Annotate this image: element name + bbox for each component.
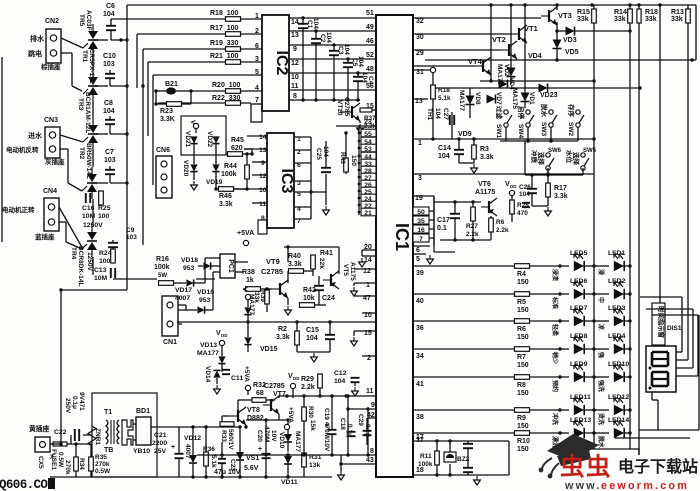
svg-text:104: 104 xyxy=(343,44,350,55)
svg-text:C5: C5 xyxy=(351,58,358,67)
transistor VT9 C2785 xyxy=(261,257,288,298)
svg-text:蓝插座: 蓝插座 xyxy=(35,232,55,241)
wire power box xyxy=(92,393,157,477)
svg-text:C11: C11 xyxy=(231,375,243,382)
diode VD13b MA177 xyxy=(197,342,226,372)
svg-text:C2: C2 xyxy=(319,34,326,43)
svg-text:10V: 10V xyxy=(270,430,277,442)
svg-text:IC2: IC2 xyxy=(273,51,290,76)
resistor R17 100 xyxy=(210,25,241,36)
svg-text:+5VA: +5VA xyxy=(237,230,254,237)
svg-text:104: 104 xyxy=(306,335,318,342)
LED LED14 xyxy=(594,417,632,449)
svg-text:浸渍: 浸渍 xyxy=(551,269,559,281)
resistor R31 13k xyxy=(302,448,322,477)
svg-text:VT9: VT9 xyxy=(266,257,280,266)
svg-text:C24: C24 xyxy=(322,295,335,302)
capacitor C26 104 xyxy=(519,184,531,207)
connector CN6 xyxy=(156,147,172,198)
switch SW4 xyxy=(517,106,534,138)
svg-text:SW1: SW1 xyxy=(495,124,502,138)
op-amp IC2 xyxy=(251,15,290,122)
svg-text:电动机正转: 电动机正转 xyxy=(2,205,35,214)
switch SW1 xyxy=(495,106,512,138)
wire pin boxes rail xyxy=(434,196,455,252)
svg-text:R11: R11 xyxy=(420,453,432,460)
svg-text:烫洗: 烫洗 xyxy=(597,413,605,425)
svg-text:VD2: VD2 xyxy=(503,64,510,77)
terminal +5VA mid xyxy=(243,366,251,395)
diode VD4b xyxy=(499,62,516,90)
svg-text:50: 50 xyxy=(417,209,425,216)
svg-text:C7: C7 xyxy=(105,149,114,156)
svg-text:R7: R7 xyxy=(517,354,526,361)
svg-text:14: 14 xyxy=(291,19,299,26)
svg-text:7: 7 xyxy=(255,97,259,104)
wire IC2-IC1 ladder lines xyxy=(289,16,376,101)
resistor R10 150 xyxy=(515,431,561,453)
svg-text:R16: R16 xyxy=(156,256,169,263)
capacitor C9 103 xyxy=(108,227,137,254)
diode VD23 xyxy=(430,84,642,100)
wire pin18 row xyxy=(413,467,509,475)
svg-text:13: 13 xyxy=(291,32,299,39)
transistor VT3 xyxy=(541,7,572,31)
resistor R36 5.1k xyxy=(203,425,217,477)
svg-text:48: 48 xyxy=(366,66,374,73)
svg-text:4: 4 xyxy=(255,85,259,92)
svg-text:0.5W: 0.5W xyxy=(57,452,64,468)
svg-text:68: 68 xyxy=(256,390,264,397)
svg-text:104: 104 xyxy=(103,11,115,18)
LED LED3 xyxy=(594,305,632,330)
svg-text:2: 2 xyxy=(367,355,371,362)
svg-text:1: 1 xyxy=(418,140,422,147)
resistor R37 2.2k xyxy=(360,108,377,130)
resistor R2 3.3k xyxy=(276,320,299,352)
svg-text:R40: R40 xyxy=(288,253,301,260)
svg-text:49: 49 xyxy=(366,24,374,31)
capacitor C8 104 xyxy=(103,100,127,134)
capacitor C14 104 xyxy=(438,139,474,163)
wire IC1 pin 34 row xyxy=(413,349,514,360)
svg-text:3: 3 xyxy=(418,175,422,182)
svg-text:排水: 排水 xyxy=(30,34,45,43)
svg-text:LED10: LED10 xyxy=(608,361,629,368)
svg-text:12: 12 xyxy=(363,268,371,275)
svg-text:冲洗: 冲洗 xyxy=(551,413,559,425)
LED LED13 xyxy=(551,417,596,448)
LED LED10 xyxy=(594,361,632,392)
svg-text:13k: 13k xyxy=(309,462,321,469)
resistor R6 150 xyxy=(515,319,561,341)
svg-text:C3: C3 xyxy=(337,46,344,55)
svg-text:LED7: LED7 xyxy=(570,305,588,312)
resistor R18 33k xyxy=(637,9,658,23)
svg-text:过滤: 过滤 xyxy=(495,106,504,120)
svg-text:电动机反转: 电动机反转 xyxy=(6,145,39,154)
resistor R33 560 xyxy=(220,422,246,451)
svg-text:VD17: VD17 xyxy=(175,287,192,294)
svg-text:R21 100: R21 100 xyxy=(210,53,239,60)
resistor R46 3.3k xyxy=(216,187,249,208)
svg-text:46: 46 xyxy=(366,38,374,45)
svg-text:VD20: VD20 xyxy=(182,160,189,177)
svg-text:C6: C6 xyxy=(106,3,115,10)
svg-text:TH1: TH1 xyxy=(426,108,433,121)
svg-text:VD15: VD15 xyxy=(260,346,278,353)
svg-text:棕插座: 棕插座 xyxy=(40,62,61,71)
capacitor C4 104 xyxy=(353,72,374,100)
svg-text:VT3: VT3 xyxy=(558,11,572,20)
svg-text:33k: 33k xyxy=(577,16,589,23)
svg-text:VT5: VT5 xyxy=(342,264,349,276)
resistor R42 10k xyxy=(299,287,326,307)
svg-text:TR5: TR5 xyxy=(78,14,85,27)
resistor R43 150 xyxy=(339,131,357,174)
wire IC1 pin 38 row xyxy=(413,410,514,421)
svg-text:R10: R10 xyxy=(517,438,530,445)
site tag Q606.COM xyxy=(0,478,55,491)
svg-text:A1175: A1175 xyxy=(349,262,356,281)
switch SW2 xyxy=(567,104,584,136)
svg-text:1: 1 xyxy=(366,282,370,289)
triac TR3 xyxy=(77,92,98,150)
counter IC3 xyxy=(258,133,295,234)
svg-text:R27: R27 xyxy=(466,223,478,230)
svg-text:SW6: SW6 xyxy=(548,148,562,154)
capacitor C21 2200 25V xyxy=(152,427,184,477)
svg-text:100: 100 xyxy=(99,258,111,265)
svg-text:2.2k: 2.2k xyxy=(496,227,509,234)
resistor R29 2.2k xyxy=(301,374,322,396)
transistor VT1 xyxy=(511,24,538,43)
svg-text:104: 104 xyxy=(357,56,364,67)
svg-text:R4: R4 xyxy=(517,271,526,278)
svg-text:R14: R14 xyxy=(614,9,627,16)
capacitor C12 104 xyxy=(334,370,360,396)
wire second top line xyxy=(110,19,112,21)
svg-text:VD22: VD22 xyxy=(206,131,213,148)
IC1 left bottom pin numbers xyxy=(366,388,375,464)
svg-text:104: 104 xyxy=(334,378,346,385)
svg-text:轻柔: 轻柔 xyxy=(551,324,559,337)
svg-text:TR3: TR3 xyxy=(77,98,84,111)
svg-text:39: 39 xyxy=(416,270,424,277)
svg-text:VD13: VD13 xyxy=(200,342,217,349)
svg-text:VD9: VD9 xyxy=(458,131,472,138)
svg-text:VD23: VD23 xyxy=(540,92,558,99)
IC1 pin box 7 xyxy=(413,234,434,243)
svg-text:C2785: C2785 xyxy=(343,97,350,117)
triac TR4 xyxy=(70,225,97,286)
svg-text:5: 5 xyxy=(416,256,420,263)
svg-text:150: 150 xyxy=(350,155,357,166)
diode VD20 xyxy=(182,160,198,177)
svg-text:+: + xyxy=(171,444,175,451)
svg-text:ZNR1: ZNR1 xyxy=(94,428,101,445)
svg-text:10: 10 xyxy=(259,187,267,194)
svg-text:灰插座: 灰插座 xyxy=(45,157,65,166)
svg-text:VD19: VD19 xyxy=(206,179,223,186)
wire pin13 stub xyxy=(413,98,428,100)
diode VD12 4007 xyxy=(184,425,201,477)
svg-text:7: 7 xyxy=(419,236,423,243)
svg-text:R30: R30 xyxy=(307,406,314,418)
svg-text:预约: 预约 xyxy=(551,380,559,392)
resistor R35 270k 0.5W xyxy=(89,446,111,477)
svg-text:CX5: CX5 xyxy=(37,456,44,469)
wire pin19 link xyxy=(413,196,434,246)
svg-text:3.3k: 3.3k xyxy=(276,334,290,341)
svg-text:42: 42 xyxy=(367,412,375,419)
wire y81 line xyxy=(480,79,596,82)
svg-text:32: 32 xyxy=(416,18,424,25)
resistor R5 150 xyxy=(515,292,561,314)
ground R17 xyxy=(545,207,552,216)
wire IC2 left pin lines xyxy=(111,19,262,103)
capacitor C19 470M10V xyxy=(323,396,337,455)
svg-text:104: 104 xyxy=(434,108,441,119)
svg-text:100k: 100k xyxy=(418,461,433,468)
svg-text:5: 5 xyxy=(255,69,259,76)
svg-text:8: 8 xyxy=(370,448,374,455)
svg-text:34: 34 xyxy=(416,353,424,360)
ground C15 R2 xyxy=(297,352,330,362)
IC1 pin pad 26 xyxy=(358,180,376,189)
svg-text:R2: R2 xyxy=(278,326,287,333)
varistor ZNR1 xyxy=(88,426,101,446)
svg-text:R45: R45 xyxy=(231,137,244,144)
svg-text:150: 150 xyxy=(517,334,529,341)
svg-text:VS1: VS1 xyxy=(246,455,259,462)
svg-text:4007: 4007 xyxy=(175,295,190,302)
svg-text:953: 953 xyxy=(183,265,195,272)
capacitor C30 xyxy=(463,441,473,455)
switch SW6 xyxy=(530,148,562,170)
display DIS1 seven segment xyxy=(646,346,676,392)
svg-text:1: 1 xyxy=(255,13,259,20)
svg-text:104: 104 xyxy=(438,153,450,160)
capacitor C15 104 xyxy=(306,320,335,352)
wire mid horizontal y300 xyxy=(177,321,247,323)
svg-text:150: 150 xyxy=(517,423,529,430)
svg-text:51: 51 xyxy=(366,10,374,17)
svg-text:C22: C22 xyxy=(54,429,67,436)
svg-text:LED13: LED13 xyxy=(570,417,591,424)
svg-text:270k: 270k xyxy=(95,461,110,468)
label 250V 0.1u 9V471 xyxy=(64,392,85,414)
resistor R41 22k xyxy=(311,250,333,276)
potentiometer B21 xyxy=(154,81,192,95)
diode VD1 xyxy=(521,41,536,108)
svg-text:+5VA: +5VA xyxy=(287,407,294,423)
svg-text:3.3K: 3.3K xyxy=(160,116,175,123)
svg-text:B21: B21 xyxy=(165,81,178,88)
connector CN2 xyxy=(28,18,61,71)
svg-text:R34: R34 xyxy=(78,458,85,470)
resistor R9 150 xyxy=(515,408,561,430)
svg-text:R33: R33 xyxy=(220,430,227,442)
svg-text:3.3k: 3.3k xyxy=(480,154,494,161)
svg-text:5W: 5W xyxy=(158,273,167,279)
svg-text:100k: 100k xyxy=(221,171,237,178)
svg-text:TB: TB xyxy=(104,447,113,454)
diode VD19 xyxy=(206,164,223,186)
svg-text:8: 8 xyxy=(261,215,265,222)
diode VD21 xyxy=(184,131,198,148)
diode VD13 MA177 chain xyxy=(244,294,255,324)
capacitor C23 xyxy=(218,442,236,477)
connector CN1 xyxy=(162,296,186,346)
ground IC1 pin15 xyxy=(351,331,358,346)
resistor R30 15k xyxy=(302,396,316,448)
IC1 pin pad 54 xyxy=(358,137,376,146)
svg-text:33k: 33k xyxy=(614,16,626,23)
ground R3 xyxy=(471,164,478,173)
transistor VT10 C2785 xyxy=(336,97,363,133)
svg-text:R35: R35 xyxy=(95,454,107,461)
capacitor C18 0.1u xyxy=(339,396,356,455)
svg-text:10: 10 xyxy=(291,74,299,81)
svg-text:DD: DD xyxy=(510,184,517,189)
LED LED6 xyxy=(551,278,596,309)
ground IC1 pin14 xyxy=(359,250,366,267)
svg-text:BR50W-14L: BR50W-14L xyxy=(85,143,92,179)
diode VD22 xyxy=(206,131,220,148)
svg-text:0.1μ: 0.1μ xyxy=(346,424,353,437)
svg-text:43: 43 xyxy=(366,457,374,464)
resistor R20 100 xyxy=(212,82,241,93)
svg-text:47: 47 xyxy=(363,295,371,302)
resistor R4 150 xyxy=(515,264,561,286)
wire IC3 top bus xyxy=(311,127,376,133)
IC1 pin pad 25 xyxy=(358,187,376,196)
wire VD4 line xyxy=(425,53,696,62)
svg-text:CN3: CN3 xyxy=(44,117,58,124)
svg-text:浸: 浸 xyxy=(597,269,605,275)
svg-text:VT8: VT8 xyxy=(247,407,260,414)
svg-text:C10: C10 xyxy=(103,53,116,60)
resistor R23 3.3K xyxy=(154,91,191,123)
terminal VaA xyxy=(241,287,251,304)
svg-text:脱水: 脱水 xyxy=(540,104,549,118)
fuse FUSE1 xyxy=(50,442,71,470)
terminal Vdd VT6 xyxy=(505,181,517,200)
wire rail x594 xyxy=(593,5,595,449)
svg-text:40: 40 xyxy=(416,298,424,305)
svg-text:103: 103 xyxy=(126,234,137,241)
svg-text:R18: R18 xyxy=(645,9,658,16)
svg-text:LED12: LED12 xyxy=(608,394,629,401)
svg-text:20: 20 xyxy=(364,244,372,251)
wire left rails xyxy=(2,5,143,290)
svg-text:选择: 选择 xyxy=(537,152,546,166)
wire rail x688 xyxy=(687,5,689,360)
capacitor C5 104 xyxy=(343,56,364,100)
capacitor C29 0.1u xyxy=(357,414,372,445)
svg-text:MA177: MA177 xyxy=(294,431,301,452)
triac TR1 xyxy=(81,44,98,102)
wire switch bottoms xyxy=(500,127,578,175)
resistor R45 620 xyxy=(226,137,254,156)
resistor R22 330 xyxy=(212,95,241,105)
IC1 pin pad 33 xyxy=(358,159,376,168)
terminal Vdd mid xyxy=(216,330,228,350)
svg-text:R43: R43 xyxy=(339,152,346,164)
wire rail x630 xyxy=(629,5,631,449)
svg-text:VD16: VD16 xyxy=(197,289,214,296)
svg-text:IC3: IC3 xyxy=(278,169,295,194)
wire triac tops xyxy=(2,40,108,183)
svg-text:23: 23 xyxy=(364,119,372,126)
svg-text:IC1: IC1 xyxy=(392,223,412,251)
svg-text:3.3k: 3.3k xyxy=(554,193,568,200)
svg-text:953: 953 xyxy=(199,297,211,304)
svg-text:BCR8DK-14L: BCR8DK-14L xyxy=(77,246,84,286)
resistor R44 100k xyxy=(221,152,249,189)
resistor R28 470 xyxy=(510,200,530,222)
triac TR2 xyxy=(78,143,97,199)
wire rail x639 xyxy=(638,5,640,455)
svg-text:17: 17 xyxy=(416,434,424,441)
wire led bottom return xyxy=(560,449,639,455)
wire pin3 line xyxy=(413,172,594,175)
svg-text:R9: R9 xyxy=(517,415,526,422)
resistor R6 2.2k xyxy=(489,216,509,240)
resistor R18 100 xyxy=(210,10,241,21)
svg-text:强洗: 强洗 xyxy=(597,380,605,392)
svg-text:VD18: VD18 xyxy=(181,257,198,264)
svg-text:TR2: TR2 xyxy=(78,147,85,160)
svg-text:V: V xyxy=(241,287,248,292)
wire verticals to transistors xyxy=(491,5,557,81)
svg-text:9: 9 xyxy=(371,402,375,409)
capacitor C7 103 xyxy=(104,149,127,183)
svg-text:R3: R3 xyxy=(480,146,489,153)
wire VT9 links xyxy=(284,245,339,274)
LED LED2 xyxy=(594,278,632,303)
svg-text:+: + xyxy=(258,446,262,453)
svg-text:R29: R29 xyxy=(301,376,314,383)
svg-text:MA175: MA175 xyxy=(511,88,518,109)
diode VD2 MA175 xyxy=(496,64,516,85)
diode VD15 xyxy=(244,322,277,353)
resistor R40 3.3k xyxy=(288,253,313,283)
wire IC1 pin15 line xyxy=(360,109,376,111)
svg-text:SW3: SW3 xyxy=(540,122,547,136)
svg-text:25V: 25V xyxy=(154,448,167,455)
svg-text:CN1: CN1 xyxy=(163,339,177,346)
svg-text:5.1k: 5.1k xyxy=(438,95,451,102)
transistor VT6 A1175 xyxy=(475,181,497,216)
resistor R13 33k xyxy=(671,9,690,23)
svg-text:15k: 15k xyxy=(309,420,316,431)
svg-text:www.: www. xyxy=(564,480,602,491)
svg-text:中: 中 xyxy=(597,297,605,303)
transistor VT5 A1175 xyxy=(323,262,356,289)
switch SW5 xyxy=(565,148,597,170)
resistor R11 100k xyxy=(418,439,439,476)
svg-text:R6: R6 xyxy=(496,219,505,226)
svg-text:VT10: VT10 xyxy=(336,100,343,116)
svg-text:LED6: LED6 xyxy=(570,278,588,285)
microcontroller IC1 xyxy=(376,15,413,477)
svg-text:103: 103 xyxy=(104,157,116,164)
svg-text:36: 36 xyxy=(416,325,424,332)
switch SW3 xyxy=(540,104,557,136)
svg-text:104: 104 xyxy=(519,191,530,198)
